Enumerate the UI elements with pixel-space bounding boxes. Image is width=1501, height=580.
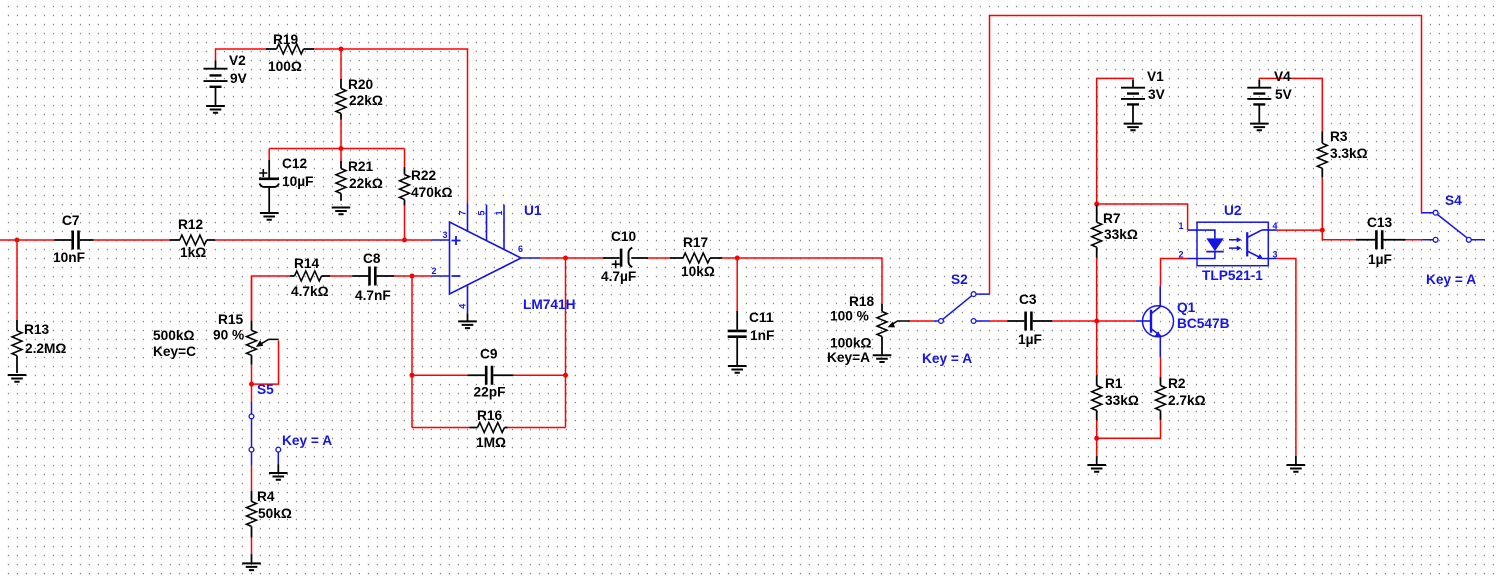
wire: R3 bottom	[1321, 177, 1323, 230]
resistor R2	[1156, 376, 1206, 420]
svg-text:10nF: 10nF	[53, 250, 85, 265]
svg-text:R13: R13	[24, 322, 49, 337]
wire: C3 to Q1 base	[1052, 320, 1136, 322]
svg-text:R2: R2	[1168, 376, 1186, 391]
svg-text:R14: R14	[294, 256, 319, 271]
svg-text:7: 7	[457, 210, 467, 215]
svg-text:100 %: 100 %	[830, 309, 869, 324]
svg-text:3: 3	[1273, 250, 1278, 260]
wire: feedback right leg	[565, 258, 567, 428]
op-amp U1 LM741H	[432, 204, 541, 314]
resistor R3	[1317, 129, 1367, 177]
wire: C12 drop	[268, 149, 270, 161]
resistor R1	[1092, 376, 1139, 421]
ground R18	[873, 355, 892, 362]
wire: R22 bottom to input net	[404, 206, 406, 240]
optocoupler U2 TLP521-1	[1179, 221, 1278, 266]
wire: R1 bottom to ground	[1096, 420, 1098, 456]
wire: U2 pin2 to Q1 collector	[1161, 259, 1188, 287]
svg-text:90 %: 90 %	[213, 328, 244, 343]
svg-text:4.7kΩ: 4.7kΩ	[291, 284, 329, 299]
battery V2 9V	[204, 53, 248, 106]
transistor Q1 BC547B	[1136, 286, 1174, 357]
ground R13	[8, 375, 27, 382]
wire: mid rail C12-R21-R22	[269, 148, 404, 150]
resistor R7	[1092, 205, 1138, 258]
resistor R17	[670, 235, 722, 279]
svg-text:C3: C3	[1019, 292, 1037, 307]
node: pin2/feedback junction	[410, 274, 415, 279]
svg-text:R21: R21	[348, 159, 373, 174]
ground R4	[242, 554, 261, 570]
wire: op-amp out to C10	[540, 257, 603, 259]
node: feedback left at C9	[410, 373, 415, 378]
wire: R20 top	[340, 49, 342, 79]
resistor R12	[170, 217, 215, 260]
svg-text:R7: R7	[1103, 211, 1121, 226]
wire: S5 to R4	[251, 465, 253, 491]
svg-text:33kΩ: 33kΩ	[1105, 393, 1139, 408]
svg-text:V1: V1	[1147, 69, 1164, 84]
svg-text:R18: R18	[849, 294, 874, 309]
svg-text:10µF: 10µF	[282, 174, 313, 189]
svg-text:S5: S5	[257, 382, 274, 397]
svg-text:2.7kΩ: 2.7kΩ	[1168, 393, 1206, 408]
svg-text:1µF: 1µF	[1018, 332, 1042, 347]
svg-text:V4: V4	[1274, 69, 1291, 84]
svg-text:R15: R15	[218, 312, 243, 327]
svg-text:4: 4	[457, 304, 467, 309]
potentiometer R15 500k	[153, 312, 279, 365]
wire: C11 drop	[736, 258, 738, 311]
svg-text:Key = A: Key = A	[922, 351, 972, 366]
svg-text:500kΩ: 500kΩ	[153, 328, 194, 343]
svg-text:S4: S4	[1445, 193, 1462, 208]
capacitor C7	[53, 213, 94, 265]
svg-text:33kΩ: 33kΩ	[1104, 227, 1138, 242]
svg-text:R16: R16	[477, 408, 502, 423]
svg-text:4.7nF: 4.7nF	[355, 288, 391, 303]
resistor R16	[470, 408, 508, 450]
svg-text:100Ω: 100Ω	[268, 59, 302, 74]
battery V1 3V	[1121, 69, 1166, 123]
wire: R21 drop	[340, 149, 342, 162]
svg-text:R19: R19	[273, 32, 298, 47]
node: R1/R2 ground junction	[1094, 436, 1099, 441]
svg-text:5V: 5V	[1275, 87, 1293, 102]
svg-text:Key = A: Key = A	[282, 433, 332, 448]
svg-text:S2: S2	[951, 272, 968, 287]
svg-text:C13: C13	[1367, 215, 1392, 230]
svg-text:Key=C: Key=C	[153, 344, 196, 359]
svg-text:Q1: Q1	[1177, 300, 1196, 315]
svg-text:1kΩ: 1kΩ	[180, 245, 206, 260]
ground S5 alt throw	[269, 464, 288, 480]
ground V4	[1250, 124, 1269, 131]
node: R17/C11 junction	[735, 256, 740, 261]
wire: C8 to op-amp pin2	[394, 275, 432, 277]
svg-text:2: 2	[1179, 250, 1184, 260]
battery V4 5V	[1247, 69, 1292, 123]
svg-text:TLP521-1: TLP521-1	[1202, 268, 1263, 283]
svg-text:R17: R17	[683, 235, 708, 250]
wire: R15 bottom to S5 junction	[251, 365, 253, 384]
switch S5	[249, 401, 281, 465]
svg-text:22kΩ: 22kΩ	[349, 176, 383, 191]
wire: U2 pin3 to ground	[1277, 259, 1296, 456]
wire: S2 up to top rail over to S4	[990, 16, 1422, 295]
svg-text:3V: 3V	[1148, 87, 1166, 102]
svg-text:BC547B: BC547B	[1177, 316, 1230, 331]
svg-text:1µF: 1µF	[1368, 252, 1392, 267]
capacitor C11 1nF	[728, 310, 775, 366]
svg-text:C10: C10	[611, 229, 636, 244]
wire: R20 bottom to mid rail	[340, 120, 342, 149]
wire: junction to S5	[251, 384, 253, 401]
ground C12	[260, 213, 279, 220]
svg-text:6: 6	[518, 244, 523, 254]
wire: V4 to R3 top	[1259, 78, 1322, 131]
svg-text:U2: U2	[1224, 203, 1242, 218]
wire: inverting line corner to R14	[252, 276, 290, 321]
svg-text:10kΩ: 10kΩ	[681, 264, 715, 279]
svg-text:C8: C8	[363, 251, 381, 266]
wire: feedback left leg	[411, 276, 413, 428]
svg-text:LM741H: LM741H	[523, 297, 575, 312]
svg-text:22pF: 22pF	[474, 385, 506, 400]
resistor R22	[400, 167, 453, 206]
svg-text:100kΩ: 100kΩ	[830, 336, 871, 351]
switch S4	[1421, 210, 1485, 242]
potentiometer R18 100k	[827, 294, 910, 365]
ground U2 pin3 net	[1287, 456, 1306, 472]
svg-text:22kΩ: 22kΩ	[349, 93, 383, 108]
node: pin4/R3/C13 junction	[1320, 228, 1325, 233]
capacitor C12 10uF	[259, 156, 313, 212]
node: mid rail junction	[339, 146, 344, 151]
wire: R1-R2 bottom link	[1097, 420, 1161, 438]
node: rail junction at R20	[339, 47, 344, 52]
resistor R13	[12, 320, 66, 373]
wire: C10 to R17	[648, 257, 670, 259]
svg-text:470kΩ: 470kΩ	[411, 185, 452, 200]
ground C11	[728, 366, 747, 373]
wire: R4 to ground	[251, 538, 253, 555]
node: feedback right at C9	[563, 373, 568, 378]
svg-text:5: 5	[476, 210, 486, 215]
wire: R19 to op-amp pin7 corner	[314, 49, 468, 204]
svg-text:3: 3	[443, 230, 448, 240]
capacitor C9 22pF	[468, 347, 514, 400]
svg-text:50kΩ: 50kΩ	[258, 506, 292, 521]
svg-text:C7: C7	[62, 213, 80, 228]
svg-text:C11: C11	[749, 310, 774, 325]
ground R21	[332, 208, 351, 215]
wire: C9 right	[513, 374, 565, 376]
wire: R13 drop	[16, 240, 18, 320]
svg-text:R22: R22	[411, 168, 436, 183]
svg-text:R20: R20	[348, 77, 373, 92]
resistor R4	[247, 489, 292, 538]
node: R7 top junction	[1094, 202, 1099, 207]
wire: R14 to C8	[330, 275, 352, 277]
svg-text:U1: U1	[524, 203, 542, 218]
svg-text:4.7µF: 4.7µF	[601, 269, 636, 284]
wire: V1 to R7 chain	[1097, 78, 1133, 204]
ground V1	[1124, 124, 1143, 131]
wire: C13 to S4	[1406, 239, 1423, 241]
wire: R16 left	[412, 427, 470, 429]
capacitor C8	[352, 251, 394, 303]
svg-text:V2: V2	[229, 53, 246, 68]
node: R15 wiper junction	[249, 382, 254, 387]
capacitor C13 1uF	[1356, 215, 1406, 267]
ground V2	[206, 106, 225, 113]
svg-text:2: 2	[432, 266, 437, 276]
svg-text:R12: R12	[178, 217, 203, 232]
wire: R17 to R18 corner	[722, 258, 882, 304]
resistor R19	[266, 32, 314, 74]
wire: R12 to op-amp pin3 (junction with R22)	[215, 239, 432, 241]
resistor R14	[290, 256, 330, 299]
wire: C9 left	[412, 374, 468, 376]
node: input junction at R13	[15, 238, 20, 243]
wire: R15 wiper loop	[252, 341, 279, 385]
wire: R18 wiper to S2	[910, 320, 933, 322]
wire: R16 right	[508, 427, 566, 429]
svg-text:1: 1	[1179, 221, 1184, 231]
svg-text:Key = A: Key = A	[1426, 272, 1476, 287]
wire: input net left segment	[0, 239, 55, 241]
wire: S2 lower throw to C3	[990, 320, 1008, 322]
wire: R7 to base junction	[1096, 258, 1098, 376]
wire: C7 to R12	[94, 239, 170, 241]
wire: Q1 emitter to R2	[1160, 357, 1162, 377]
svg-text:R1: R1	[1105, 376, 1123, 391]
svg-text:C9: C9	[480, 347, 498, 362]
svg-text:Key=A: Key=A	[827, 350, 870, 365]
capacitor C10 4.7uF	[601, 229, 648, 284]
svg-text:C12: C12	[282, 156, 307, 171]
ground op-amp pin4	[458, 313, 477, 328]
wire: R15 top drop	[251, 276, 253, 321]
switch S2	[933, 292, 989, 324]
svg-text:3.3kΩ: 3.3kΩ	[1330, 146, 1368, 161]
svg-text:R3: R3	[1330, 129, 1348, 144]
svg-text:1: 1	[494, 210, 504, 215]
resistor R20	[336, 77, 383, 120]
svg-text:1MΩ: 1MΩ	[476, 435, 506, 450]
node: R22/input junction	[402, 238, 407, 243]
wire: junction jog to C13	[1322, 230, 1356, 240]
svg-text:1nF: 1nF	[750, 328, 774, 343]
wire: junction to U2 pin1	[1097, 204, 1188, 230]
wire: U2 pin4 to R3 junction	[1277, 229, 1323, 231]
resistor R21	[336, 159, 383, 201]
svg-text:4: 4	[1273, 221, 1278, 231]
capacitor C3 1uF	[1007, 292, 1052, 347]
svg-text:9V: 9V	[230, 71, 248, 86]
wire: R22 drop	[404, 149, 406, 168]
node: output junction	[563, 256, 568, 261]
svg-text:2.2MΩ: 2.2MΩ	[25, 341, 66, 356]
node: base/R7/R1 junction	[1094, 319, 1099, 324]
svg-text:R4: R4	[257, 489, 275, 504]
ground R1/R2 net	[1087, 456, 1106, 471]
wire: V2 plus to rail	[216, 49, 267, 61]
